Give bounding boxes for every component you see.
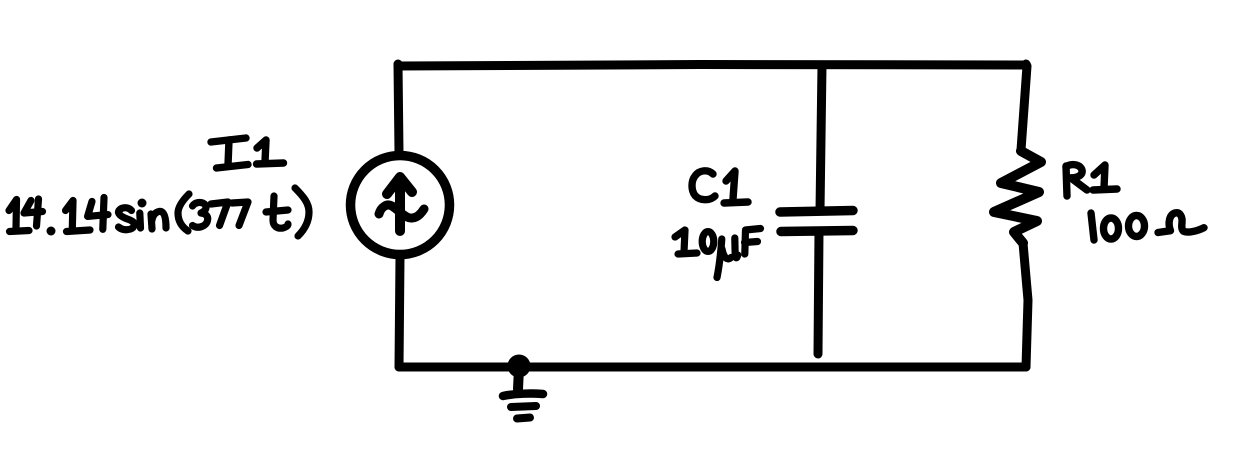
label C1 <box>692 171 748 203</box>
value label 10uF <box>675 229 761 278</box>
wire left lower <box>399 257 400 367</box>
value label 100ohm <box>1091 213 1204 240</box>
label I1 <box>211 138 284 168</box>
wire right lower <box>1023 243 1028 367</box>
node junction dot <box>508 355 531 378</box>
wire bottom <box>399 363 1026 372</box>
capacitor C1 <box>780 211 853 232</box>
ground <box>503 368 543 419</box>
resistor R1 <box>994 151 1041 243</box>
wire top <box>398 65 1026 67</box>
wire left upper <box>398 64 399 153</box>
label R1 <box>1066 165 1117 196</box>
value label 14.14sin(377 t) <box>9 188 309 236</box>
current source I1 <box>351 156 450 255</box>
wire right upper <box>1021 64 1027 150</box>
wire capacitor branch lower <box>818 231 819 354</box>
wire capacitor branch upper <box>820 65 822 211</box>
